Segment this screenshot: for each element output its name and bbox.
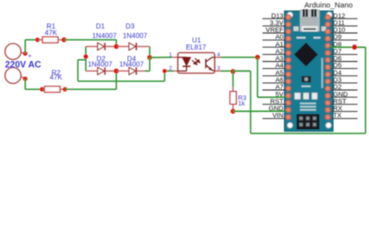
diode D3 — [129, 43, 136, 50]
component right of USB — [322, 27, 327, 32]
svg-text:D7: D7 — [333, 49, 342, 56]
svg-text:D1: D1 — [96, 24, 105, 31]
svg-text:47K: 47K — [45, 30, 58, 37]
op-amp U1 optocoupler EL817 box — [178, 53, 215, 73]
wire DC+ to opto pin1 — [150, 56, 172, 58]
pin label A1 (left) — [263, 46, 287, 48]
pin label D3 (right) — [332, 82, 358, 84]
wire 5V connection — [258, 96, 288, 98]
svg-text:D5: D5 — [333, 63, 342, 70]
wire bottom terminal down — [24, 79, 26, 90]
pin label D6 (right) — [332, 61, 358, 63]
pin label D10 (right) — [332, 32, 358, 34]
pin label VREF (left) — [263, 32, 287, 34]
wire to D8 pin — [329, 46, 366, 48]
pin label A7 (left) — [263, 89, 287, 91]
silkscreen text block — [300, 103, 316, 105]
node emitter junction — [231, 69, 236, 74]
wire D2 cathode pin — [105, 70, 116, 72]
wire to R2 — [25, 88, 42, 90]
pin label VIN (left) — [263, 118, 287, 120]
wire GND connection — [233, 110, 287, 112]
wire pin3 to R3 node — [221, 70, 234, 72]
svg-text:D11: D11 — [333, 20, 345, 27]
wire pin4 to corner — [221, 56, 258, 58]
wire D4 anode pin — [116, 70, 129, 72]
pin label A2 (left) — [263, 53, 287, 55]
AC source terminal bottom — [5, 68, 21, 84]
silkscreen text ICSP — [302, 86, 311, 88]
svg-text:GND: GND — [333, 91, 348, 98]
node R2 right — [63, 87, 67, 91]
svg-text:1N4007: 1N4007 — [88, 62, 113, 69]
wire D1 anode to D2 anode vertical — [85, 47, 87, 72]
svg-text:A6: A6 — [275, 77, 283, 84]
MCU chip (rotated) — [294, 43, 318, 67]
pin label A4 (left) — [263, 68, 287, 70]
side vertical text — [321, 58, 323, 88]
svg-text:RST: RST — [270, 98, 283, 105]
svg-text:D2: D2 — [333, 84, 342, 91]
svg-text:D10: D10 — [333, 27, 346, 34]
svg-text:VREF: VREF — [266, 27, 284, 34]
wire up right side — [365, 47, 367, 133]
node AC1 junction D1-D3 — [114, 44, 119, 49]
wire jog left — [78, 59, 86, 61]
svg-text:A3: A3 — [275, 56, 283, 63]
wire emitter continues right — [233, 70, 251, 72]
pin label 3.3V (left) — [263, 25, 287, 27]
pin 3 — [215, 70, 221, 72]
node top terminal — [23, 51, 27, 55]
wire down to D1-D3 junction — [115, 40, 117, 47]
component left of USB — [294, 27, 299, 32]
phototransistor inside U1 — [206, 57, 212, 70]
wire down left rail — [77, 60, 79, 81]
Arduino Nano board — [285, 11, 334, 131]
pin 4 — [215, 56, 221, 58]
svg-text:220V AC: 220V AC — [5, 60, 42, 70]
pin label RST (left) — [263, 103, 287, 105]
pin 2 — [174, 70, 178, 72]
resistor R2 — [42, 88, 45, 90]
pin label D4 (right) — [332, 75, 358, 77]
resistor R3 — [232, 72, 234, 88]
svg-text:4: 4 — [217, 53, 220, 59]
wire D4 cathode to DC+ node — [145, 70, 150, 72]
svg-text:D3: D3 — [333, 77, 342, 84]
node R1 right — [62, 37, 67, 42]
pin label D12 (right) — [332, 18, 358, 20]
pin 1 — [172, 56, 178, 58]
svg-text:A2: A2 — [275, 49, 283, 56]
svg-text:D3: D3 — [126, 24, 135, 31]
node pin2 corner — [163, 69, 167, 73]
pin label D13 (left) — [263, 18, 287, 20]
svg-text:A4: A4 — [275, 63, 283, 70]
pin label RX (right) — [332, 110, 358, 112]
node R3 bottom — [231, 109, 236, 114]
svg-text:D4: D4 — [333, 70, 342, 77]
svg-text:3.3V: 3.3V — [270, 20, 284, 27]
SMD components row — [295, 93, 301, 100]
USB connector — [300, 10, 320, 32]
reset button — [302, 76, 312, 83]
pin label RST (right) — [332, 103, 358, 105]
svg-text:RST: RST — [333, 98, 346, 105]
svg-text:1N4007: 1N4007 — [119, 62, 144, 69]
resistor R1 — [38, 39, 43, 41]
pin label A0 (left) — [263, 39, 287, 41]
pin label A6 (left) — [263, 82, 287, 84]
svg-text:D6: D6 — [333, 56, 342, 63]
AC source terminal top — [5, 44, 21, 60]
ICSP header — [297, 114, 320, 130]
wire to pin 2 — [165, 70, 174, 72]
svg-text:1k: 1k — [238, 100, 246, 107]
wire down to bottom run — [250, 71, 252, 133]
svg-text:A1: A1 — [275, 41, 283, 48]
svg-text:TX: TX — [333, 113, 342, 120]
wire D2 anode pin — [86, 70, 98, 72]
wire — [21, 53, 25, 54]
wire riser to pin2 — [164, 71, 166, 81]
wire R1 to bridge node — [64, 39, 116, 41]
pin label GND (right) — [332, 96, 358, 98]
svg-text:47K: 47K — [50, 74, 63, 81]
pin label D5 (right) — [332, 68, 358, 70]
wire top terminal up to R1 row — [24, 40, 26, 54]
wire bottom run — [251, 132, 366, 134]
wire D1 anode pin — [86, 46, 98, 48]
node DC+ — [147, 55, 152, 60]
svg-text:D9: D9 — [333, 34, 342, 41]
LED inside U1 — [178, 56, 187, 58]
svg-text:EL817: EL817 — [186, 45, 206, 52]
wire R3 to GND pin — [233, 110, 287, 112]
diode D2 — [98, 67, 105, 74]
svg-text:D12: D12 — [333, 13, 346, 20]
svg-text:VIN: VIN — [272, 113, 283, 120]
mounting holes — [287, 12, 293, 18]
silkscreen text — [297, 37, 306, 39]
pin pads — [286, 15, 291, 20]
pin label A5 (left) — [263, 75, 287, 77]
wire D1 cathode pin — [105, 46, 116, 48]
wire down to 5V row — [257, 57, 259, 97]
diode D4 — [129, 67, 136, 74]
node bottom terminal — [23, 77, 27, 81]
node R2 left — [40, 87, 44, 91]
wire DC- rail to optocoupler — [78, 80, 165, 82]
svg-text:RX: RX — [333, 106, 343, 113]
wire to R1 — [25, 39, 37, 41]
wire to 5V pin — [258, 96, 288, 98]
svg-text:3: 3 — [217, 66, 220, 72]
pin label D9 (right) — [332, 39, 358, 41]
node AC2 junction D2-D4 — [114, 69, 119, 74]
svg-text:D13: D13 — [271, 13, 284, 20]
node R1 left — [35, 38, 39, 42]
wire D3 anode pin — [116, 46, 129, 48]
pin label D2 (right) — [332, 89, 358, 91]
svg-text:1N4007: 1N4007 — [123, 33, 148, 40]
wire D4 cathode pin — [136, 70, 144, 72]
wire DC+ down — [149, 47, 151, 58]
svg-text:A0: A0 — [275, 34, 283, 41]
wire R2 to bridge lower junction — [65, 88, 116, 90]
wire D3 cathode pin — [136, 46, 149, 48]
wire D8 connection — [329, 46, 366, 48]
svg-text:U1: U1 — [192, 38, 201, 45]
pin label D7 (right) — [332, 53, 358, 55]
pin label TX (right) — [332, 118, 358, 120]
wire up to D2-D4 junction — [115, 71, 117, 89]
node DC- — [84, 54, 88, 58]
svg-text:A7: A7 — [275, 84, 283, 91]
svg-text:2: 2 — [169, 66, 172, 72]
wire — [21, 77, 25, 79]
svg-text:Arduino_Nano: Arduino_Nano — [304, 0, 353, 9]
LED light arrows — [192, 58, 200, 64]
diode D1 — [98, 43, 105, 50]
node on D8 wire — [352, 45, 357, 50]
node pin4 corner — [255, 55, 260, 60]
pin label D11 (right) — [332, 25, 358, 27]
svg-text:A5: A5 — [275, 70, 283, 77]
svg-text:1N4007: 1N4007 — [92, 33, 117, 40]
svg-text:1: 1 — [169, 53, 172, 59]
pin label A3 (left) — [263, 61, 287, 63]
